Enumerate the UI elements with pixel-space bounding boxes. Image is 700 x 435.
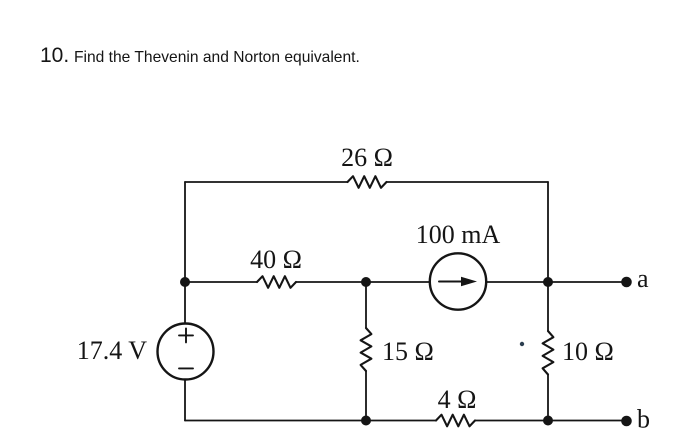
junction node right middle [543,277,553,287]
wire top-left vertical (left rail upper) [184,182,186,282]
svg-text:17.4 V: 17.4 V [77,336,148,365]
wire right rail upper [547,182,549,282]
resistor R 10ohm zigzag [543,331,554,375]
svg-text:10.: 10. [40,44,69,67]
resistor R 40ohm zigzag [257,276,296,288]
svg-text:b: b [637,405,650,434]
wire bottom: left corner to 4ohm [185,420,436,422]
resistor R 15ohm zigzag [361,328,372,371]
voltage source minus sign [179,367,193,369]
wire left rail: voltage source bottom to bottom wire [184,380,186,421]
resistor R 4ohm zigzag [436,415,475,427]
junction node 15ohm top [361,277,371,287]
svg-text:a: a [637,264,649,293]
wire middle: current source to terminal a [486,281,626,283]
wire middle: 40ohm to current source [296,281,430,283]
resistor R 26ohm zigzag [348,176,387,188]
voltage source plus sign [179,328,193,342]
wire top horizontal left segment [185,181,348,183]
junction node left middle [180,277,190,287]
terminal b dot [621,416,632,427]
junction node right bottom [543,416,553,426]
wire 15ohm branch upper [365,282,367,328]
svg-text:Find the Thevenin and Norton e: Find the Thevenin and Norton equivalent. [74,49,360,66]
terminal a dot [621,277,632,288]
wire top horizontal right segment [387,181,549,183]
svg-text:10 Ω: 10 Ω [562,337,614,366]
svg-text:100 mA: 100 mA [416,220,501,249]
voltage source V1 17.4V circle [158,324,214,380]
wire middle: left node to 40ohm [185,281,257,283]
current source I1 100mA circle [430,253,486,309]
wire 15ohm branch lower [365,371,367,421]
wire right rail: 10ohm to bottom node [547,375,549,421]
svg-text:4 Ω: 4 Ω [438,385,477,414]
stray blue dot artifact [520,342,524,346]
svg-text:40 Ω: 40 Ω [250,245,302,274]
current source arrow [439,281,465,283]
wire bottom: 4ohm to terminal b [475,420,626,422]
junction node 15ohm bottom [361,416,371,426]
wire right rail: node to 10ohm [547,282,549,331]
svg-text:26 Ω: 26 Ω [341,143,393,172]
svg-text:15 Ω: 15 Ω [382,337,434,366]
wire left rail: node to voltage source top [184,282,186,324]
